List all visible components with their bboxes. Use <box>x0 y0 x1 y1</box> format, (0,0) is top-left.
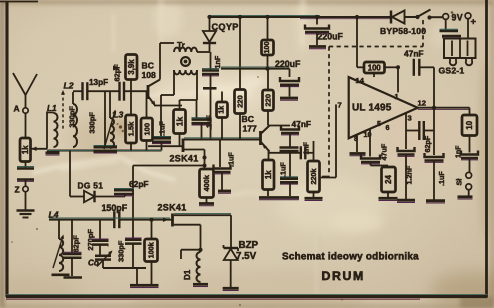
svg-text:1.2nF: 1.2nF <box>405 165 414 184</box>
svg-text:3: 3 <box>408 113 412 122</box>
svg-text:330pF: 330pF <box>117 240 126 262</box>
svg-text:L4: L4 <box>49 210 59 220</box>
svg-text:BC: BC <box>142 61 154 71</box>
svg-text:BYP58-100: BYP58-100 <box>380 26 426 36</box>
svg-text:6: 6 <box>386 123 390 132</box>
svg-text:7.5V: 7.5V <box>236 251 257 262</box>
svg-text:330pF: 330pF <box>68 106 77 128</box>
svg-text:L1: L1 <box>47 104 57 113</box>
svg-text:9V: 9V <box>452 13 464 23</box>
svg-text:A: A <box>14 104 20 114</box>
svg-text:BC: BC <box>242 114 254 124</box>
svg-text:3,9k: 3,9k <box>127 59 136 75</box>
svg-text:1k: 1k <box>21 145 30 154</box>
svg-text:100k: 100k <box>147 242 156 258</box>
svg-text:2SK41: 2SK41 <box>170 154 199 164</box>
svg-text:.1uF: .1uF <box>437 171 446 186</box>
svg-text:7: 7 <box>338 101 342 110</box>
svg-text:108: 108 <box>142 70 157 80</box>
svg-text:14: 14 <box>356 76 365 85</box>
svg-text:220: 220 <box>264 94 273 107</box>
svg-text:12: 12 <box>418 98 426 107</box>
svg-text:62pF: 62pF <box>129 179 149 189</box>
svg-text:100: 100 <box>142 123 151 136</box>
svg-text:400k: 400k <box>202 174 211 191</box>
svg-text:.1uF: .1uF <box>158 121 167 136</box>
svg-text:.1uF: .1uF <box>279 162 288 177</box>
svg-text:D1: D1 <box>183 269 192 280</box>
svg-text:DG 51: DG 51 <box>78 181 104 191</box>
svg-text:Schemat ideowy odbiornika: Schemat ideowy odbiornika <box>282 251 419 262</box>
svg-text:100: 100 <box>368 64 382 73</box>
svg-text:13pF: 13pF <box>89 78 108 87</box>
svg-text:GS2-1: GS2-1 <box>439 66 465 76</box>
svg-text:+: + <box>471 17 477 28</box>
svg-text:47nF: 47nF <box>404 49 424 59</box>
svg-text:5: 5 <box>377 119 381 128</box>
svg-text:2SK41: 2SK41 <box>158 203 187 213</box>
svg-text:.1uF: .1uF <box>227 152 236 167</box>
svg-text:10: 10 <box>465 120 474 129</box>
svg-text:177: 177 <box>243 124 258 134</box>
svg-text:Z: Z <box>15 185 20 195</box>
svg-text:220uF: 220uF <box>275 59 301 69</box>
svg-text:100: 100 <box>264 42 271 54</box>
svg-text:220k: 220k <box>309 169 318 185</box>
svg-text:24: 24 <box>384 175 393 184</box>
svg-text:1k: 1k <box>264 170 273 179</box>
svg-text:220: 220 <box>236 95 245 108</box>
svg-text:.1uF: .1uF <box>205 115 214 130</box>
svg-text:62pF: 62pF <box>423 135 432 152</box>
svg-text:UL 1495: UL 1495 <box>352 103 392 114</box>
svg-text:1k: 1k <box>219 106 226 114</box>
svg-text:1.5k: 1.5k <box>127 121 136 136</box>
svg-text:L2: L2 <box>64 81 74 91</box>
svg-text:BZP: BZP <box>239 240 259 251</box>
svg-text:1nF: 1nF <box>213 55 222 68</box>
svg-text:DRUM: DRUM <box>322 269 365 283</box>
svg-text:47uF: 47uF <box>380 143 389 160</box>
svg-text:330pF: 330pF <box>88 112 97 134</box>
svg-text:1k: 1k <box>175 117 185 127</box>
svg-text:47nF: 47nF <box>292 119 312 129</box>
svg-text:Sł: Sł <box>455 179 464 186</box>
